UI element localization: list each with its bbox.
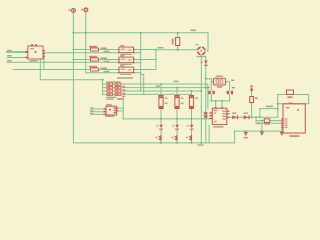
wire: coil bus drop to row3 line bbox=[140, 73, 142, 91]
relay K2 bbox=[118, 55, 135, 65]
transistor Q1 bbox=[156, 135, 162, 141]
connector J1 bbox=[90, 104, 119, 117]
power block PS1 bbox=[281, 104, 305, 137]
wire: feedback line y=108.6 bbox=[260, 108, 278, 110]
wire: relay coil bus x=140.7 bbox=[140, 33, 142, 73]
label above row1 line bbox=[173, 81, 178, 83]
wire: motor bottom vertical x=202 bbox=[200, 54, 202, 142]
wire: long line y=118.9 to IC bbox=[123, 118, 211, 120]
wire: connector right feeds bbox=[118, 107, 123, 109]
label under bottom bus bbox=[198, 144, 204, 146]
wire: resistor column taps bbox=[160, 84, 162, 96]
small red label near x=257 bbox=[257, 122, 260, 124]
diode stack (4 rows x 2) bbox=[106, 81, 125, 100]
wire: v x=259.8 bbox=[259, 109, 261, 118]
wire: top loop rectangle bbox=[278, 95, 309, 104]
IC U2 bbox=[209, 107, 229, 128]
wire: return to block pin bbox=[282, 127, 283, 131]
diode D1 below motor bbox=[201, 61, 208, 66]
wire: relay2 lower out stub bbox=[134, 62, 141, 64]
wire: cap bottoms join bbox=[210, 94, 212, 101]
relay K1 bbox=[118, 45, 135, 55]
wire: top horizontal bus y=32.8 bbox=[73, 32, 208, 34]
wire: bottom bus bbox=[73, 142, 234, 144]
wire: input line1 into left box bbox=[7, 51, 28, 53]
label +12V bbox=[266, 106, 273, 108]
wire: diode stack left bus bbox=[102, 80, 104, 95]
wire: crystal left pin drop bbox=[210, 79, 212, 91]
wire: channel row1 direct line bbox=[43, 52, 119, 54]
wire: channel row2 direct line bbox=[7, 61, 119, 63]
wire: arrow + R5 column x=251.6 bbox=[251, 91, 253, 117]
wire: drop x=261.9 to D4 bbox=[261, 121, 263, 132]
resistor R7 (top loop) bbox=[287, 90, 294, 104]
crystal Q4 bbox=[213, 75, 225, 87]
wire: resistor R4 bottom stub bbox=[177, 46, 179, 50]
wire: diode column below motor x=205.8 bbox=[205, 57, 207, 143]
motor M1 (circle) bbox=[196, 44, 207, 57]
LED L2 bbox=[172, 125, 179, 130]
resistor R4 (vertical, top right) bbox=[172, 37, 180, 45]
wire: left box bottom corner to stack feed line bbox=[40, 59, 102, 80]
wire: relay1 lower out stub bbox=[134, 52, 141, 54]
wire: IC right line y=117.3 bbox=[227, 116, 278, 118]
transistor Q3 bbox=[186, 135, 192, 141]
wire: bus to motor left pin y=49.8 bbox=[156, 49, 198, 51]
resistor RL3 bbox=[189, 96, 198, 109]
wire: pin feed w1 x=256 bbox=[256, 117, 283, 123]
diode D4 (below return line) bbox=[260, 132, 264, 136]
relay3 bottom label bbox=[117, 77, 133, 79]
wire: block left vertical x=277.8 bbox=[277, 95, 279, 118]
wire: channel row1 resistor line bbox=[73, 49, 90, 51]
transistor Q2 bbox=[172, 135, 178, 141]
label on motor line bbox=[158, 47, 164, 49]
resistor R2 (channel 2) bbox=[89, 56, 99, 61]
wire: left power rail vertical x=73.4 bbox=[72, 14, 74, 143]
resistor RL1 (vertical) bbox=[159, 96, 168, 109]
wire: drop to motor right pin bbox=[205, 33, 208, 51]
wire: relay1 upper out bbox=[134, 49, 156, 51]
resistor R6 (horizontal pin feed) bbox=[264, 119, 270, 125]
capacitor C1 bbox=[207, 87, 215, 94]
wire: left box right pins vertical bbox=[43, 56, 45, 70]
diode D3 bbox=[244, 112, 250, 119]
relay K3 bbox=[118, 65, 135, 75]
wire: stack row1 line to IC drop bbox=[121, 84, 208, 108]
wire: input line2 into left box bbox=[7, 57, 28, 59]
wire: pin feed w2 y=123.2 bbox=[256, 122, 283, 124]
wire: relay output bus x=155.9 bbox=[155, 50, 157, 70]
wire: second drop x=143.7 bbox=[141, 74, 144, 94]
resistor RL2 bbox=[175, 96, 184, 109]
ground symbol G2 (below block) bbox=[280, 132, 284, 136]
wire: channel row3 direct line bbox=[86, 72, 119, 74]
wire: ground return line y=131.1 bbox=[235, 130, 282, 132]
LED L3 bbox=[187, 125, 194, 130]
wire: crystal feed line y=78.8 bbox=[206, 78, 212, 80]
wire: transistor to bus stubs bbox=[160, 141, 162, 143]
wire: bus up right bbox=[234, 131, 236, 143]
wire: second power stem x=85.7 bbox=[85, 12, 87, 73]
power symbol P2 bbox=[81, 8, 88, 12]
wire: stack row3 line bbox=[121, 90, 201, 92]
ground symbol G1 (below return line) bbox=[244, 132, 249, 138]
wire labels channels (gray) bbox=[101, 47, 110, 72]
capacitor C2 bbox=[227, 80, 235, 95]
opto U0 (left box) bbox=[25, 44, 45, 61]
wire: relay2 upper out bbox=[134, 59, 156, 61]
resistor R5 (vertical x=251.6) bbox=[250, 97, 258, 103]
diode D2 bbox=[232, 112, 238, 119]
wire: IC left pin stubs bbox=[204, 111, 207, 113]
wire: resistor bottoms to line and LEDs bbox=[160, 109, 162, 125]
wire: channel row2 resistor line bbox=[73, 59, 90, 61]
wire: stack row2 line bbox=[121, 87, 206, 89]
wire: crystal right pin bbox=[226, 82, 230, 91]
resistor R3 (channel 3) bbox=[89, 66, 99, 71]
wire: relay3 lower out stub bbox=[134, 72, 141, 74]
wire: stack rows middle joins bbox=[113, 83, 115, 85]
LED L1 bbox=[156, 125, 163, 130]
wire: relay3 upper out bbox=[134, 69, 156, 71]
label near col1 tap bbox=[156, 85, 160, 87]
wire: led to transistor stubs bbox=[160, 130, 162, 135]
resistor R1 (channel 1) bbox=[89, 46, 99, 51]
wire: resistor R4 top stub bbox=[177, 33, 179, 38]
power symbol P1 bbox=[69, 9, 76, 13]
arrow symbol above R5 bbox=[250, 86, 254, 91]
left edge tiny labels bbox=[7, 50, 12, 62]
wire: stack row taps left bbox=[103, 83, 107, 85]
wire: stack row4 line bbox=[121, 93, 192, 95]
label on top bus bbox=[191, 30, 197, 32]
wire: IC bottom pin drop bbox=[208, 125, 210, 143]
wire: cap line to IC top pins bbox=[215, 101, 217, 108]
cap C3 (left of IC) bbox=[204, 112, 207, 117]
wire: channel row3 resistor line bbox=[13, 69, 91, 71]
